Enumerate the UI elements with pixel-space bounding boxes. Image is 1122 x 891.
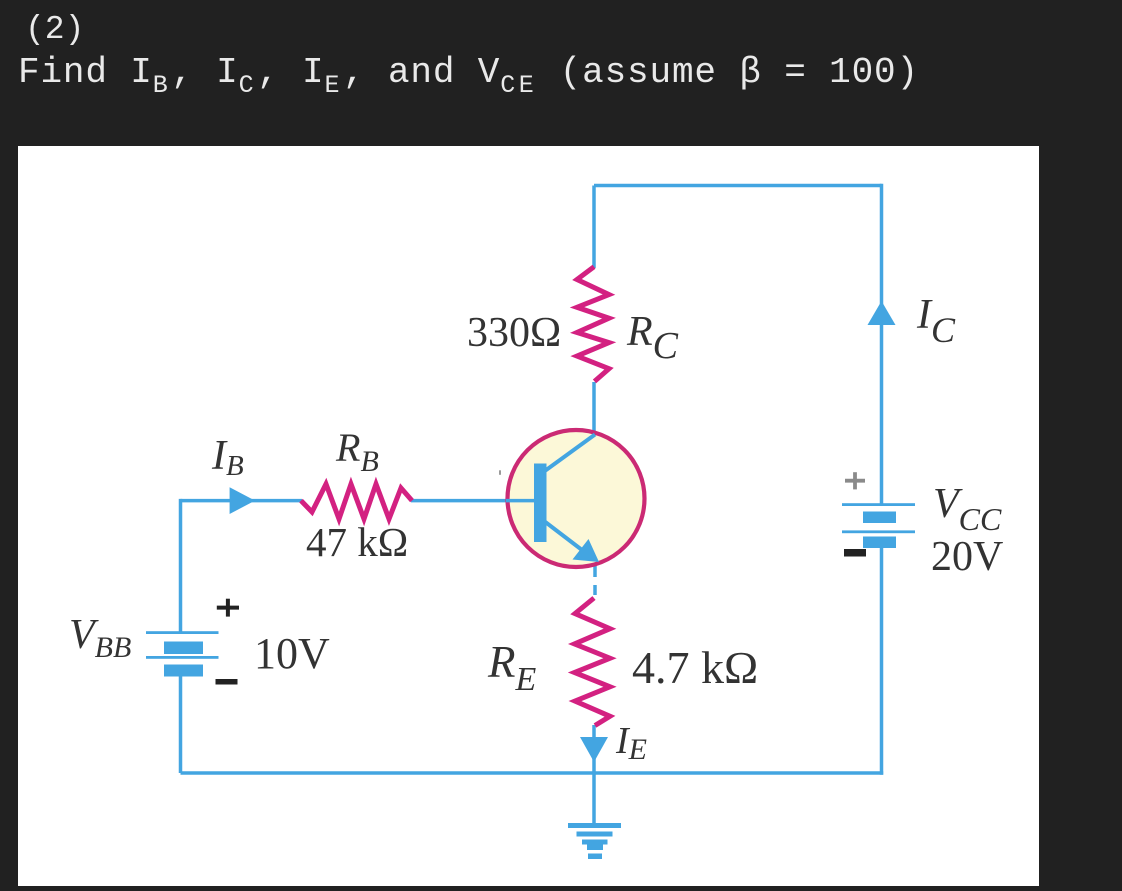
- svg-text:VBB: VBB: [69, 612, 131, 664]
- wire: collector vertical lower (RC down to transistor): [592, 382, 596, 436]
- resistor RC zigzag: [577, 267, 609, 382]
- label RC: [626, 309, 679, 367]
- label 330Ω value of RC: [467, 310, 561, 356]
- label RE: [487, 637, 537, 698]
- minus sign at VBB: [216, 679, 238, 685]
- svg-text:47 kΩ: 47 kΩ: [306, 519, 408, 565]
- wire: emitter stub below transistor with dash: [593, 562, 597, 595]
- minus sign at VCC: [844, 549, 866, 557]
- label VBB: [69, 612, 131, 664]
- arrow IC (collector current, pointing up): [868, 301, 896, 325]
- svg-text:RE: RE: [487, 637, 537, 698]
- arrow IB (base current): [230, 487, 255, 514]
- svg-text:IC: IC: [916, 292, 956, 350]
- transistor Q1 base bar: [534, 464, 547, 543]
- svg-text:VCC: VCC: [933, 481, 1002, 537]
- transistor Q1 circle: [508, 430, 645, 567]
- label VCC: [933, 481, 1002, 537]
- plus sign at VCC: [845, 472, 865, 489]
- wire: left vertical upper (base node down to VBB+): [179, 499, 183, 632]
- svg-text:10V: 10V: [254, 629, 330, 678]
- plus sign at VBB: [217, 599, 239, 617]
- wire: collector vertical upper (top wire down to RC): [592, 186, 596, 269]
- wire: emitter vertical (RE down to bottom wire): [592, 725, 596, 773]
- wire: right vertical upper (VCC+ up to top wire): [880, 184, 884, 504]
- svg-text:RB: RB: [335, 425, 379, 478]
- wire: ground stem: [592, 773, 596, 823]
- wire: top horizontal (collector node to VCC+): [594, 184, 882, 188]
- wire: left vertical lower (VBB- down to bottom wire): [179, 677, 183, 774]
- wire: base horizontal (VBB node to RB to transistor base): [181, 499, 535, 503]
- label 4.7 kΩ value of RE: [632, 642, 758, 693]
- ground symbol: [568, 823, 621, 859]
- title line 1: [25, 11, 84, 48]
- wire: bottom horizontal (ground rail): [181, 771, 884, 775]
- arrow IE (emitter current, pointing down): [580, 737, 608, 762]
- svg-text:4.7 kΩ: 4.7 kΩ: [632, 642, 758, 693]
- battery VBB plates: [146, 631, 219, 676]
- label RB: [335, 425, 379, 478]
- label 10V value of VBB: [254, 629, 330, 678]
- transistor Q1 collector diagonal: [542, 435, 595, 474]
- svg-text:330Ω: 330Ω: [467, 310, 561, 356]
- svg-text:IE: IE: [615, 720, 647, 766]
- svg-text:IB: IB: [211, 433, 244, 482]
- transistor Q1 base wire inside circle: [506, 499, 535, 503]
- wire: right vertical lower (VCC- down to bottom wire): [880, 547, 884, 775]
- title line 2: [18, 52, 919, 93]
- label 20V value of VCC: [931, 534, 1003, 580]
- battery VCC plates: [842, 503, 915, 548]
- svg-text:20V: 20V: [931, 534, 1003, 580]
- stray tick artifact left of transistor: [499, 470, 501, 475]
- label IE: [615, 720, 647, 766]
- label 47 kΩ value of RB: [306, 519, 408, 565]
- transistor Q1 emitter diagonal with arrow: [544, 521, 599, 562]
- label IC: [916, 292, 956, 350]
- white circuit panel: [18, 146, 1039, 886]
- resistor RB zigzag: [301, 484, 412, 519]
- label IB: [211, 433, 244, 482]
- svg-text:RC: RC: [626, 309, 679, 367]
- resistor RE zigzag: [575, 598, 611, 726]
